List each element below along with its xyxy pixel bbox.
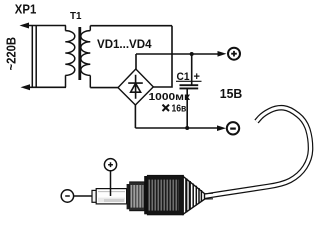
wire primary top lead [65,26,67,31]
plug tip cylinder [96,189,126,204]
wire primary bottom lead [65,75,67,87]
transformer T1 secondary winding [81,31,91,76]
plus rail [136,53,218,55]
plus rail arrowhead [218,51,227,57]
minus rail arrowhead [217,125,226,131]
minus rail [135,127,218,129]
plug XP1 prong bottom arrowhead [21,84,31,90]
transformer T1 primary winding [65,31,75,76]
wire secondary top lead [89,26,91,31]
junction dot plus rail [190,52,194,56]
terminal plus [228,48,240,60]
plug knurled section large [148,176,184,215]
bridge rectifier VD1-VD4 diamond [118,69,153,105]
plug tip shading [98,192,125,201]
wire C1 bottom to minus rail [186,88,188,128]
wire AC vertical down to bridge right vertex [153,26,172,87]
wire bridge top vertex to plus rail [135,54,137,69]
plug knurled section small [130,182,144,211]
plug plus wire [110,171,112,196]
svg-text:ХР1: ХР1 [15,2,37,16]
cone ribs [186,179,190,213]
plug strain relief cone [183,177,204,215]
plug plus terminal circle [104,159,116,171]
capacitor C1 plates [180,85,199,88]
wire secondary top AC rail [90,25,172,27]
bridge diode symbol [128,75,143,99]
cable outer [203,108,311,197]
plug tip end cap [92,190,96,202]
plug XP1 prong top arrowhead [20,23,30,29]
svg-text:VD1...VD4: VD1...VD4 [97,37,152,51]
plug XP1 socket double line [32,26,36,87]
cable stub at cone [205,193,214,199]
junction dot minus rail [185,126,189,130]
svg-text:~220В: ~220В [5,37,19,71]
terminal minus [227,122,239,134]
plug XP1 prong bottom wire [29,86,66,88]
plug XP1 prong top wire [28,25,66,27]
plug minus wire [74,195,93,197]
cable inner white [203,108,311,197]
plug minus terminal circle [61,190,73,202]
wire junction to C1 top [191,54,193,85]
plug collar ring [127,184,130,209]
svg-text:16в: 16в [172,102,187,114]
wire secondary bottom lead [89,75,91,87]
svg-text:Т1: Т1 [70,11,82,22]
label x16v cross [163,105,170,111]
transformer T1 core [78,27,81,80]
plug step edge [144,176,147,214]
wire bridge bottom vertex down [134,105,136,128]
wire secondary bottom to bridge left vertex [90,87,118,89]
svg-text:15В: 15В [220,87,243,101]
